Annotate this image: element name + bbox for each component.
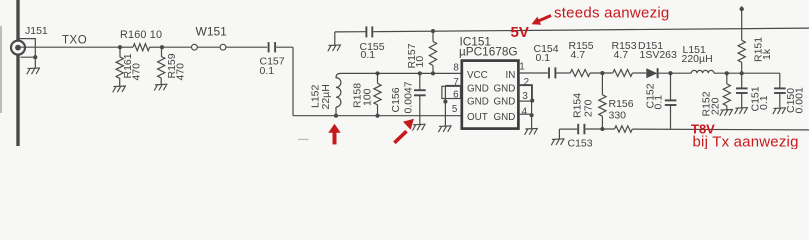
svg-text:5V: 5V <box>511 24 529 41</box>
svg-text:0.1: 0.1 <box>361 49 376 61</box>
resistor R158 <box>377 73 379 83</box>
junction R157 bottom <box>431 71 435 75</box>
wire D151 to L151 <box>659 72 692 74</box>
node R161 <box>118 45 122 49</box>
wire pin1 to C154 <box>518 72 547 74</box>
svg-text:270: 270 <box>583 99 595 117</box>
ground C156 <box>412 124 425 130</box>
capacitor C156 <box>419 73 421 89</box>
wire C154 to R155 <box>556 72 570 74</box>
capacitor C151 <box>741 73 743 87</box>
wire W151 to C157 <box>226 46 267 48</box>
coax cable (thick line, top) <box>16 0 19 41</box>
junction R151-C151 <box>740 71 744 75</box>
svg-text:0.001: 0.001 <box>794 87 806 113</box>
box around pin 6 <box>442 86 461 98</box>
svg-text:0.1: 0.1 <box>260 65 275 77</box>
svg-text:R160 10: R160 10 <box>120 29 162 41</box>
svg-text:100: 100 <box>362 88 374 106</box>
svg-text:220µH: 220µH <box>682 53 713 65</box>
svg-text:1k: 1k <box>761 48 773 60</box>
svg-text:0.0047: 0.0047 <box>403 81 415 113</box>
junction R151 top <box>740 7 744 11</box>
diode D151 <box>646 68 657 78</box>
inductor L151 <box>691 70 714 73</box>
wire 5V rail left <box>335 31 366 33</box>
junction pin3 gnd <box>530 99 534 103</box>
capacitor C155 <box>365 26 367 37</box>
svg-text:5: 5 <box>452 104 458 115</box>
ground C153 <box>551 139 564 145</box>
svg-text:0.1: 0.1 <box>758 95 770 110</box>
junction C152 top <box>668 71 672 75</box>
resistor R152 <box>726 73 728 84</box>
ground C150 <box>773 108 786 114</box>
svg-text:µPC1678G: µPC1678G <box>459 45 518 59</box>
svg-text:OUT: OUT <box>467 112 488 123</box>
wire gnd bus pins 7-6 <box>444 86 446 126</box>
wire J151 to R161 node <box>18 46 120 48</box>
junction R154 top <box>600 71 604 75</box>
ground J151 <box>27 68 40 74</box>
wire to W151 <box>162 46 192 48</box>
op-amp U IC151 box <box>462 61 519 129</box>
svg-text:4.7: 4.7 <box>614 49 629 61</box>
svg-text:GND: GND <box>494 112 516 123</box>
node R159 <box>160 45 164 49</box>
svg-text:8: 8 <box>453 63 459 74</box>
wire to R160 <box>120 46 133 48</box>
svg-text:4: 4 <box>522 107 528 118</box>
jumper W151 <box>192 44 198 50</box>
svg-text:470: 470 <box>131 63 143 81</box>
svg-text:R156: R156 <box>609 98 634 110</box>
svg-text:bij Tx aanwezig: bij Tx aanwezig <box>693 133 799 149</box>
ground pins 2-4 <box>525 128 538 134</box>
box around pin 3 <box>519 85 533 101</box>
svg-text:IN: IN <box>505 70 515 81</box>
resistor R151 <box>741 6 743 40</box>
svg-text:1SV263: 1SV263 <box>640 49 678 61</box>
junction R154 bottom <box>600 127 604 131</box>
ground R159 <box>154 84 167 90</box>
svg-text:TXO: TXO <box>62 35 87 47</box>
wire R155 to R153 <box>590 72 613 74</box>
resistor R155 <box>570 70 590 77</box>
wire pin 7 stub <box>445 85 461 87</box>
resistor R159 <box>161 47 163 56</box>
junction R158 bottom <box>375 114 379 118</box>
wire pin 4 stub <box>518 113 531 115</box>
capacitor C154 <box>548 67 550 78</box>
svg-text:220: 220 <box>710 97 722 115</box>
svg-text:W151: W151 <box>196 24 228 38</box>
capacitor C153 <box>558 129 560 138</box>
junction pin6 gnd <box>443 100 447 104</box>
junction C156 top <box>418 71 422 75</box>
red arrow diagonal at C156 <box>394 131 406 143</box>
svg-text:3: 3 <box>522 91 528 102</box>
svg-text:1: 1 <box>519 61 524 72</box>
wire L151 to C150 corner <box>714 72 780 74</box>
svg-text:GND: GND <box>494 83 516 94</box>
junction pin4 gnd <box>530 113 534 117</box>
junction J151 shield <box>33 55 37 59</box>
ground pins 7-6 <box>438 126 451 132</box>
J151 shield box <box>19 39 35 58</box>
svg-text:4.7: 4.7 <box>571 49 586 61</box>
ground R152 <box>720 110 733 116</box>
wire C157 to corner <box>276 46 293 48</box>
junction R158 top <box>375 71 379 75</box>
wire down to OUT rail <box>292 47 294 116</box>
svg-text:470: 470 <box>174 63 186 81</box>
ground <box>328 45 341 51</box>
ground C151 <box>735 108 748 114</box>
resistor R156 <box>615 126 633 132</box>
wire R153 to D151 <box>632 72 646 74</box>
junction R157 top <box>431 29 435 33</box>
coax cable (thick line, bottom) <box>16 55 19 147</box>
wire pin 2 stub <box>518 85 531 87</box>
svg-text:330: 330 <box>609 109 627 121</box>
wire VCC node rail <box>341 72 462 74</box>
faint scan dash <box>298 138 309 140</box>
svg-text:GND: GND <box>467 83 489 94</box>
scan edge artifact left <box>0 26 2 113</box>
capacitor C157 <box>268 42 270 52</box>
svg-text:C153: C153 <box>568 137 593 149</box>
capacitor C152 <box>670 73 672 100</box>
junction R152 <box>725 71 729 75</box>
ground C155 <box>334 32 336 45</box>
connector J151 <box>11 41 25 55</box>
svg-text:steeds aanwezig: steeds aanwezig <box>554 4 670 21</box>
red arrow to 5V <box>539 16 551 21</box>
svg-text:VCC: VCC <box>467 70 488 81</box>
svg-text:C156: C156 <box>390 87 402 112</box>
wire T8V to edge <box>632 128 809 131</box>
inductor L152 <box>335 107 337 116</box>
wire gnd bus pins 2-4 <box>531 86 533 129</box>
wire 5V rail right <box>373 28 809 32</box>
svg-text:10: 10 <box>414 56 426 68</box>
svg-text:0.1: 0.1 <box>652 95 664 110</box>
svg-text:22µH: 22µH <box>320 84 332 109</box>
svg-text:2: 2 <box>524 77 529 88</box>
wire C153 to R156 <box>586 128 615 130</box>
wire OUT rail <box>293 115 462 117</box>
wire R160 to node <box>150 46 162 48</box>
ground R161 <box>113 86 126 92</box>
svg-text:GND: GND <box>494 96 516 107</box>
svg-text:0.1: 0.1 <box>536 52 551 64</box>
resistor R153 <box>613 70 633 77</box>
wire shield to ground <box>34 57 36 68</box>
junction L152 bottom <box>334 114 338 118</box>
svg-text:J151: J151 <box>25 25 48 37</box>
red arrow up at L152 <box>333 132 337 145</box>
capacitor C150 <box>779 73 781 87</box>
resistor R161 <box>119 47 121 57</box>
resistor R160 <box>133 44 150 51</box>
svg-text:GND: GND <box>467 96 489 107</box>
resistor R154 <box>601 73 603 95</box>
